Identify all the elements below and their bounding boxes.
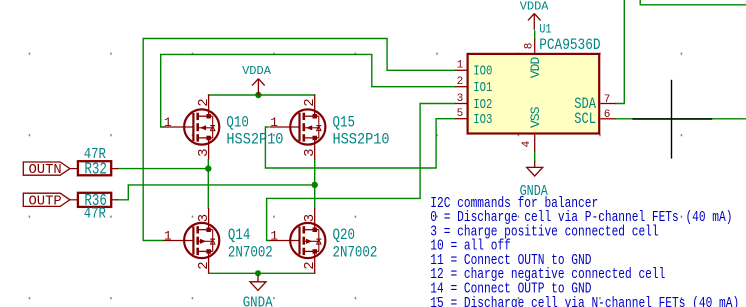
svg-text:3: 3: [196, 214, 212, 222]
svg-text:7: 7: [604, 94, 611, 106]
svg-text:PCA9536D: PCA9536D: [539, 37, 600, 55]
svg-text:Q15: Q15: [333, 114, 355, 132]
svg-text:1: 1: [270, 115, 278, 130]
svg-text:1: 1: [164, 228, 172, 243]
svg-text:2: 2: [457, 76, 464, 88]
svg-text:Q10: Q10: [226, 114, 248, 132]
svg-text:IO1: IO1: [473, 80, 492, 96]
svg-text:VDD: VDD: [528, 56, 543, 78]
svg-text:GNDA: GNDA: [243, 296, 274, 307]
svg-text:2: 2: [302, 261, 318, 269]
svg-text:1: 1: [457, 60, 464, 72]
svg-text:OUTP: OUTP: [29, 194, 62, 210]
svg-text:3: 3: [196, 148, 212, 156]
svg-text:5: 5: [457, 108, 464, 120]
svg-text:15 = Discharge cell via N-chan: 15 = Discharge cell via N-channel FETs (…: [430, 294, 739, 307]
svg-text:47R: 47R: [84, 207, 106, 223]
svg-text:2: 2: [196, 261, 212, 269]
svg-text:1: 1: [164, 115, 172, 130]
svg-text:IO2: IO2: [473, 97, 492, 113]
svg-text:2N7002: 2N7002: [228, 244, 273, 262]
svg-text:6: 6: [604, 109, 611, 121]
svg-text:VDDA: VDDA: [242, 64, 272, 78]
svg-text:IO0: IO0: [473, 63, 492, 79]
svg-text:U1: U1: [539, 23, 551, 37]
svg-text:1: 1: [270, 228, 278, 243]
svg-text:HSS2P10: HSS2P10: [333, 132, 390, 149]
svg-text:3: 3: [302, 148, 318, 156]
svg-text:Q14: Q14: [228, 227, 250, 245]
svg-text:HSS2P10: HSS2P10: [226, 132, 283, 149]
svg-text:Q20: Q20: [333, 227, 355, 245]
svg-text:VSS: VSS: [528, 106, 543, 128]
svg-text:2: 2: [196, 98, 212, 106]
svg-text:IO3: IO3: [473, 112, 492, 128]
svg-text:2N7002: 2N7002: [333, 244, 378, 262]
svg-text:3: 3: [457, 93, 464, 105]
svg-text:8: 8: [524, 43, 536, 50]
svg-text:2: 2: [302, 98, 318, 106]
svg-text:OUTN: OUTN: [29, 162, 62, 178]
svg-text:SCL: SCL: [574, 111, 596, 129]
svg-text:R32: R32: [84, 161, 107, 179]
svg-text:3: 3: [302, 214, 318, 222]
svg-text:VDDA: VDDA: [520, 0, 550, 14]
svg-text:4: 4: [521, 140, 533, 147]
